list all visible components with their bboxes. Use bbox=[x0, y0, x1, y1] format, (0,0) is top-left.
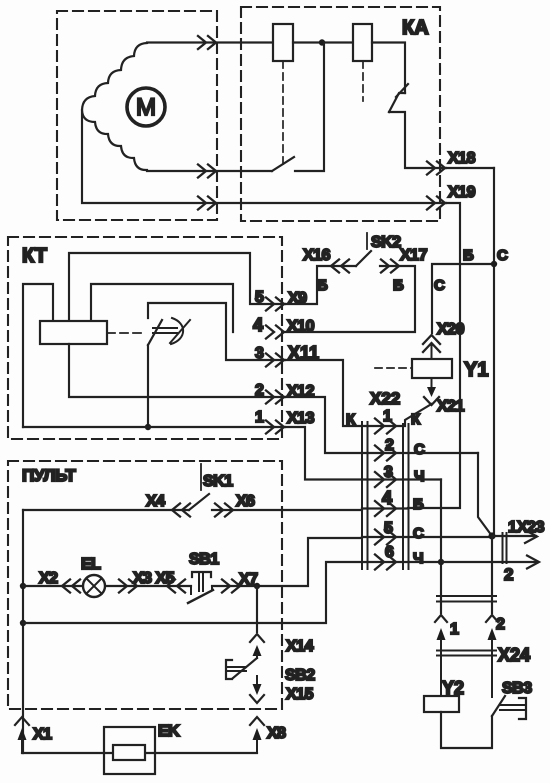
svg-text:2: 2 bbox=[504, 565, 513, 584]
svg-text:X13: X13 bbox=[287, 410, 315, 427]
SB1 contact posts and blade bbox=[190, 586, 192, 594]
bottom rail with heater EK bbox=[22, 752, 257, 754]
relay coil KA2 bbox=[353, 24, 372, 61]
svg-text:2: 2 bbox=[255, 382, 264, 399]
connector X12 arrows bbox=[266, 391, 284, 404]
X22 pin 4 arrows bbox=[375, 501, 396, 516]
svg-text:EK: EK bbox=[158, 723, 180, 740]
electromagnet Y2 bbox=[424, 696, 459, 712]
svg-text:X23: X23 bbox=[517, 519, 545, 536]
connector X8 arrow bbox=[250, 717, 264, 725]
svg-text:EL: EL bbox=[81, 556, 101, 573]
wire: lamp row bbox=[23, 537, 362, 586]
svg-text:К: К bbox=[411, 411, 421, 428]
wire: SB2 branch from lamp row bbox=[256, 586, 258, 632]
connector X23 bars bbox=[503, 533, 507, 563]
wire: X12 to X22 pin 2 bbox=[285, 397, 362, 453]
connector X21 arrow bbox=[431, 378, 433, 388]
connector X17 arrows (right) bbox=[381, 260, 399, 273]
connector X18 arrows bbox=[427, 162, 445, 175]
KT coil top lead 1 to bottom rail bbox=[23, 284, 53, 427]
X24 upper pin ends chevrons bbox=[435, 615, 498, 622]
svg-text:5: 5 bbox=[384, 520, 393, 537]
connector X9 arrows bbox=[266, 298, 284, 311]
junction node Ch net bbox=[438, 559, 444, 565]
svg-text:С: С bbox=[413, 525, 424, 542]
KT dashed enclosure box bbox=[8, 237, 282, 439]
svg-text:Б: Б bbox=[393, 277, 404, 294]
svg-text:М: М bbox=[136, 94, 156, 121]
heater EK outer box bbox=[104, 727, 155, 774]
X22 pin 3 arrows bbox=[375, 472, 396, 487]
svg-text:X6: X6 bbox=[236, 493, 255, 510]
connector X10 arrows bbox=[266, 326, 284, 339]
contact KA2 (normally open) bbox=[389, 93, 405, 112]
connector X7 arrows bbox=[222, 580, 240, 593]
motor winding cloud bbox=[82, 43, 147, 170]
svg-text:2: 2 bbox=[385, 437, 394, 454]
wire: motor middle lead to KA contact bbox=[147, 170, 272, 172]
SB3 actuator lines bbox=[500, 705, 524, 710]
svg-text:3: 3 bbox=[255, 345, 264, 362]
svg-text:С: С bbox=[414, 441, 425, 458]
X22 pin 5 arrows bbox=[375, 530, 396, 545]
motor circle symbol M bbox=[127, 88, 165, 126]
svg-text:Ч: Ч bbox=[414, 468, 425, 485]
connector X2 arrows (left) bbox=[62, 580, 80, 593]
X22 pin 2 arrows bbox=[375, 446, 396, 461]
svg-text:Y2: Y2 bbox=[442, 678, 464, 698]
svg-text:X2: X2 bbox=[39, 570, 58, 587]
X22 pin 6 row wire bbox=[362, 561, 441, 563]
wire: C line from X18 down to node at X23 bbox=[493, 168, 495, 536]
X22 pin 4 row wire bbox=[362, 507, 408, 509]
X22 pin 1 row wire bbox=[362, 425, 403, 427]
KA dashed enclosure box bbox=[241, 7, 440, 221]
connector X1 arrow bbox=[15, 717, 29, 725]
svg-text:1: 1 bbox=[450, 621, 459, 638]
connector X24 lower bars bbox=[437, 651, 496, 656]
svg-text:КА: КА bbox=[402, 17, 429, 39]
wire: X13 to X22 pin 3 bbox=[285, 427, 362, 480]
svg-text:X16: X16 bbox=[303, 247, 331, 264]
wire: contact KA2 to X18 bbox=[389, 112, 446, 168]
wire: Ch line pin3 to pin6 junction and X24 bbox=[440, 480, 442, 614]
svg-text:4: 4 bbox=[253, 315, 263, 335]
connector X24 upper bars bbox=[437, 596, 496, 602]
pushbutton SB2 blade bbox=[233, 658, 257, 678]
svg-text:X19: X19 bbox=[448, 184, 476, 201]
PULT dashed enclosure box bbox=[8, 461, 282, 709]
svg-text:SK2: SK2 bbox=[371, 234, 401, 251]
wire: SK2 right down to X10 bbox=[285, 266, 415, 332]
switch SK2 blade bbox=[356, 251, 371, 266]
relay coil KT bbox=[40, 321, 107, 344]
svg-text:Б: Б bbox=[317, 277, 328, 294]
connector X5 arrows (left) bbox=[167, 580, 185, 593]
SB3 blade bbox=[492, 696, 505, 716]
connector X11 arrows bbox=[266, 354, 284, 367]
connector X16 arrows (left) bbox=[331, 260, 349, 273]
X22 pin 2 row wire bbox=[362, 452, 478, 454]
SB1 plunger bar bbox=[192, 572, 211, 577]
lamp EL bbox=[83, 575, 105, 597]
wire: motor bottom lead (X19 net) bbox=[82, 110, 446, 203]
connector X13 arrows bbox=[266, 421, 284, 434]
junction node C net at X23 bbox=[488, 532, 495, 539]
motor dashed enclosure box bbox=[57, 11, 217, 220]
svg-text:X22: X22 bbox=[370, 389, 400, 408]
svg-text:X4: X4 bbox=[146, 493, 165, 510]
connector X15 arrow bbox=[256, 676, 258, 686]
svg-text:КТ: КТ bbox=[22, 245, 47, 267]
wire: C line down to X24 bbox=[491, 536, 493, 613]
SB3 actuator bar bbox=[519, 698, 526, 719]
connector arrows on motor bottom lead bbox=[198, 197, 216, 210]
svg-text:X8: X8 bbox=[267, 725, 286, 742]
svg-text:5: 5 bbox=[255, 289, 264, 306]
X24 lower pin arrows bbox=[437, 628, 446, 640]
timed contact KT lower lead bbox=[147, 345, 149, 427]
svg-text:2: 2 bbox=[496, 616, 505, 633]
wire: X18 to C line bbox=[446, 167, 494, 169]
contact KA1 (normally open) in motor middle lead bbox=[272, 157, 294, 171]
connector X22 left bars bbox=[362, 422, 368, 569]
electromagnet Y1 bbox=[412, 359, 452, 378]
junction node lower rail bbox=[20, 620, 26, 626]
dashed actuator stub of Y1 bbox=[375, 367, 412, 369]
dashed actuator link from coil KA2 to contact bbox=[362, 61, 364, 101]
wire: X22 pin 2 down diagonal to C node bbox=[478, 453, 492, 536]
junction node C line bbox=[491, 261, 497, 267]
wire: motor top lead to relay coil KA1 bbox=[147, 41, 273, 43]
connector X14 arrow bbox=[250, 634, 264, 642]
svg-text:X20: X20 bbox=[437, 321, 465, 338]
KT coil bottom lead to X12 row bbox=[69, 344, 285, 397]
svg-text:К: К bbox=[346, 411, 356, 428]
connector X3 arrows (right) bbox=[119, 580, 137, 593]
relay coil KA1 bbox=[273, 24, 293, 61]
svg-text:Ч: Ч bbox=[413, 550, 424, 567]
SB2 actuator bar bbox=[226, 660, 232, 679]
connector X4 arrows (left) bbox=[172, 504, 190, 517]
timed contact KT blade bbox=[148, 320, 162, 345]
SB2 actuator lines bbox=[226, 667, 246, 671]
switch SK1 blade bbox=[189, 494, 209, 510]
wire: coil KA2 to contact KA2 bbox=[372, 43, 405, 94]
svg-text:С: С bbox=[434, 277, 445, 294]
KT coil top lead 3 to X10 row bbox=[91, 284, 233, 332]
svg-text:1: 1 bbox=[255, 409, 264, 426]
connector X23 pin 2 arrow bbox=[441, 561, 538, 563]
wire: C branch to Y1 bbox=[432, 264, 494, 333]
PULT left rail bbox=[22, 510, 24, 753]
wire: X11 to X22 pin 1 bbox=[285, 360, 362, 426]
svg-text:X17: X17 bbox=[400, 247, 428, 264]
junction node lamp row bbox=[20, 583, 26, 589]
timed contact KT upper lead to X11 row bbox=[148, 303, 285, 360]
dashed actuator link from coil KA1 to contact bbox=[282, 61, 284, 167]
svg-text:Y1: Y1 bbox=[464, 359, 488, 381]
svg-text:X1: X1 bbox=[33, 726, 52, 743]
svg-text:С: С bbox=[497, 247, 508, 264]
KT bottom rail to X13 bbox=[23, 426, 285, 428]
svg-text:1: 1 bbox=[508, 519, 517, 536]
KT coil top lead 2 to X9 row bbox=[69, 253, 285, 321]
junction node at X7 bbox=[254, 583, 260, 589]
svg-text:X21: X21 bbox=[437, 398, 465, 415]
wire: X21 to X22 pin 1 right side bbox=[405, 404, 432, 426]
svg-text:SB3: SB3 bbox=[502, 680, 532, 697]
svg-text:1: 1 bbox=[383, 408, 392, 425]
heater EK resistor element bbox=[113, 745, 145, 760]
wire: X9 up to SK2 left bbox=[285, 266, 356, 304]
svg-text:4: 4 bbox=[382, 488, 392, 508]
svg-text:Б: Б bbox=[413, 496, 424, 513]
svg-text:X9: X9 bbox=[288, 290, 307, 307]
svg-text:X10: X10 bbox=[287, 318, 315, 335]
wire: SK1 row to X22 pin 4 bbox=[23, 509, 362, 511]
svg-text:6: 6 bbox=[385, 544, 394, 561]
wire: lower rail to X22 pin 6 bbox=[23, 562, 362, 623]
svg-text:ПУЛЬТ: ПУЛЬТ bbox=[22, 466, 76, 485]
svg-text:X18: X18 bbox=[448, 150, 476, 167]
connector arrows on motor middle lead bbox=[198, 165, 216, 178]
svg-text:3: 3 bbox=[384, 464, 393, 481]
connector X23 pin 1 arrow bbox=[492, 535, 536, 537]
wire: Y2 bottom loop to SB3 bbox=[441, 712, 492, 748]
wire: B line from X19 down to X22 pin 4 bbox=[408, 203, 460, 508]
junction node on KT bottom rail bbox=[145, 424, 151, 430]
X22 pin 5 row wire bbox=[362, 536, 492, 538]
X22 pin 1 arrows bbox=[375, 419, 396, 434]
svg-text:X24: X24 bbox=[498, 645, 530, 665]
X22 pin 3 row wire bbox=[362, 478, 441, 480]
label SK2 bbox=[366, 233, 368, 249]
timed contact KT delay arc and cross bbox=[171, 318, 183, 344]
wire: coil KA1 to junction node bbox=[293, 41, 353, 43]
connector X22 right bars bbox=[403, 424, 409, 569]
svg-text:X15: X15 bbox=[286, 686, 314, 703]
svg-text:SK1: SK1 bbox=[203, 473, 233, 490]
svg-text:SB1: SB1 bbox=[189, 551, 219, 568]
connector X6 arrows (right) bbox=[215, 504, 233, 517]
svg-text:X14: X14 bbox=[286, 638, 314, 655]
svg-text:Б: Б bbox=[463, 247, 474, 264]
junction node in KA bbox=[319, 39, 325, 45]
connector arrows on motor top lead bbox=[198, 36, 216, 49]
connector X19 arrows bbox=[427, 197, 445, 210]
dashed actuator link from KT coil to timed contact bbox=[107, 332, 146, 334]
svg-text:SB2: SB2 bbox=[285, 667, 315, 684]
wire: contact KA1 fixed side up to junction bbox=[295, 43, 324, 172]
connector X20 arrows bbox=[423, 335, 440, 352]
timed contact KT parallel marks bbox=[153, 328, 177, 333]
X22 pin 6 arrows bbox=[375, 555, 396, 570]
